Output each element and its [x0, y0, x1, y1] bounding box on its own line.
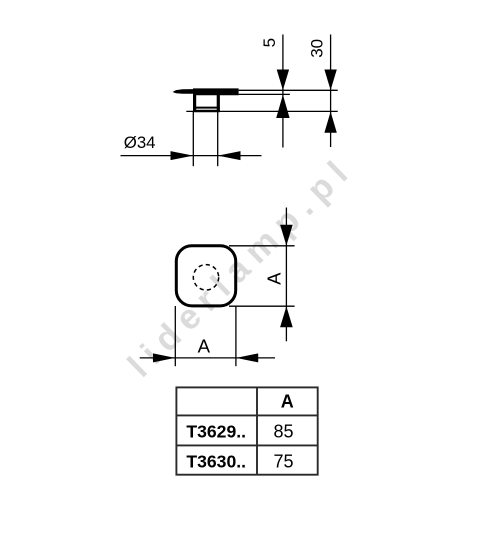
table cell T3630.. — [186, 452, 246, 472]
arrow right-pointing at square left (dim A) — [153, 353, 175, 362]
arrow down to cap top (dim 5) — [277, 70, 289, 91]
arrow down to square top (dim A) — [280, 225, 293, 246]
svg-text:30: 30 — [307, 39, 326, 58]
dimension line A horizontal — [140, 357, 275, 359]
extension line cap bottom — [239, 93, 290, 95]
dashed circle (drain hole) — [193, 265, 218, 290]
extension line square bottom right — [229, 305, 295, 307]
watermark liderlamp.pl — [120, 148, 361, 384]
stem lip upper line — [193, 107, 220, 109]
arrow right-pointing at stem left — [171, 151, 194, 160]
table outer border — [176, 387, 317, 474]
table cell 75 — [273, 452, 293, 472]
svg-text:T3629..: T3629.. — [186, 421, 246, 441]
dimension line 30 (vertical) — [330, 35, 332, 148]
label A horizontal — [198, 335, 211, 356]
svg-text:T3630..: T3630.. — [186, 452, 246, 472]
table column divider — [256, 387, 258, 474]
stem lip lower line — [193, 110, 220, 113]
dimension line diameter 34 — [121, 155, 262, 157]
svg-text:75: 75 — [273, 452, 293, 472]
cap (side view, filled disc) — [173, 88, 239, 95]
svg-text:A: A — [198, 335, 211, 356]
table row divider 1 — [176, 414, 317, 416]
extension line square top right — [229, 245, 295, 247]
arrow up to cap bottom (dim 5) — [276, 95, 289, 118]
table cell T3629.. — [186, 421, 246, 441]
extension line cap top — [239, 89, 338, 91]
svg-text:A: A — [281, 391, 294, 411]
arrow up to square bottom (dim A) — [280, 306, 293, 327]
arrow up to stem bottom (dim 30) — [324, 112, 336, 133]
table row divider 2 — [176, 444, 317, 446]
extension line stem left — [192, 112, 194, 167]
arrow down to cap top (dim 30) — [324, 70, 336, 91]
extension line square bottom left (down) — [174, 306, 176, 366]
table cell 85 — [273, 422, 293, 442]
svg-text:A: A — [265, 272, 285, 285]
arrow left-pointing at square right (dim A) — [236, 353, 258, 362]
extension line stem bottom — [186, 110, 337, 112]
dimension line A vertical — [285, 208, 287, 342]
dimension line 5 (vertical) — [282, 35, 284, 148]
svg-text:5: 5 — [260, 38, 279, 47]
stem left wall — [193, 95, 196, 112]
arrow left-pointing at stem right — [218, 151, 241, 160]
extension line square bottom right (down) — [235, 306, 237, 366]
extension line stem right — [217, 112, 219, 167]
svg-text:Ø34: Ø34 — [124, 133, 156, 152]
label diameter 34 — [124, 133, 156, 152]
plan view rounded square — [176, 246, 235, 306]
svg-text:85: 85 — [273, 422, 293, 442]
table header A — [281, 391, 294, 411]
label 30 — [307, 39, 326, 58]
stem right wall — [217, 95, 220, 112]
label A vertical — [265, 272, 285, 285]
label 5 — [260, 38, 279, 47]
